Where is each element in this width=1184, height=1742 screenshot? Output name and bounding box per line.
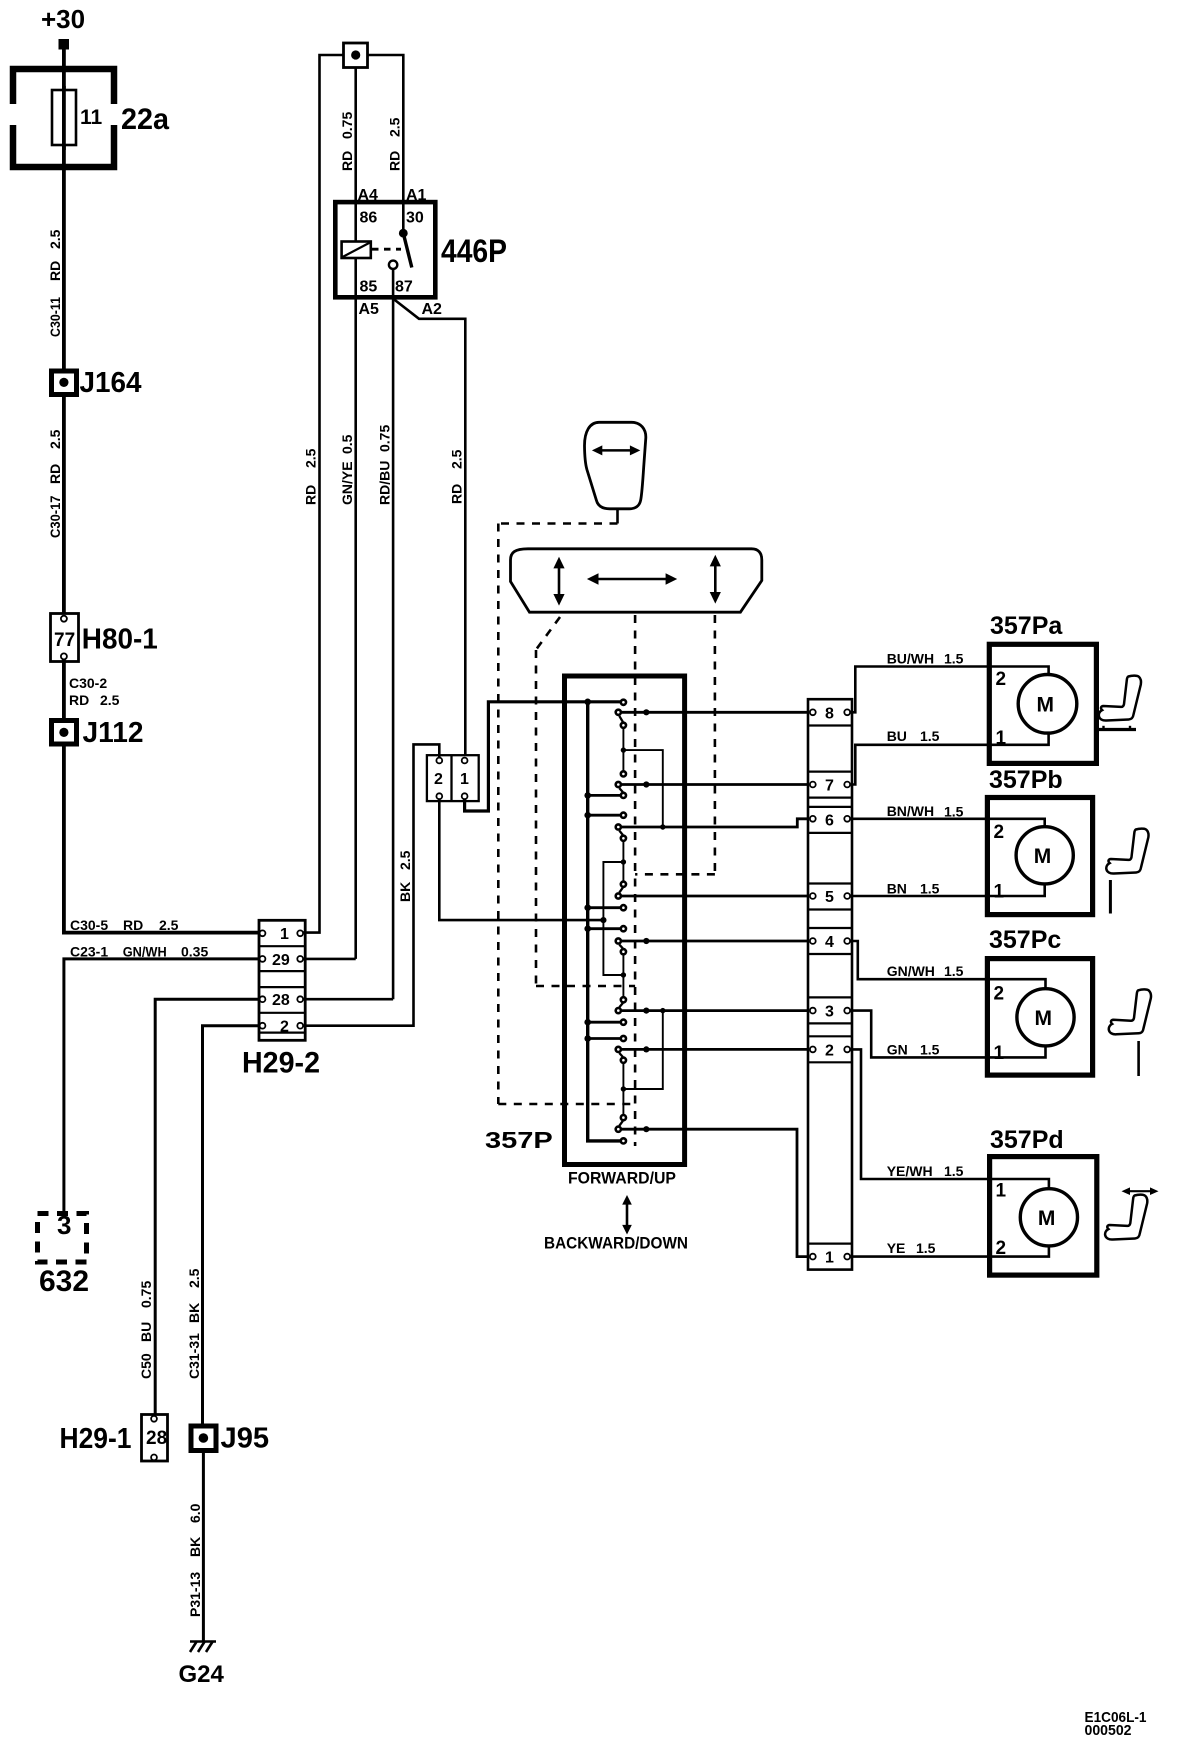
svg-text:RD: RD (47, 464, 63, 484)
wire cell8 to 357Pa pin2, BU/WH 1.5 (850, 651, 1049, 713)
wire u6 pivot to cell3 (618, 1008, 809, 1014)
switch u1 (616, 700, 626, 728)
svg-text:0.5: 0.5 (339, 434, 355, 454)
wire J112 down to H29-2 pin1 row (64, 744, 259, 933)
svg-text:RD/BU: RD/BU (377, 461, 393, 505)
svg-text:+30: +30 (41, 4, 85, 34)
junction box (harness splice) (344, 43, 368, 68)
dashed link headrest to switch (left leg) (497, 524, 635, 1105)
bus stubs to contacts (588, 795, 621, 1038)
svg-text:J112: J112 (83, 717, 144, 749)
svg-text:1.5: 1.5 (916, 1240, 936, 1256)
H29-2 pin 28 (260, 992, 304, 1009)
svg-text:J95: J95 (221, 1423, 270, 1455)
wire u5 pivot to cell4 (618, 938, 809, 944)
svg-text:2: 2 (825, 1043, 834, 1060)
svg-text:0.75: 0.75 (138, 1281, 154, 1308)
svg-text:1: 1 (825, 1250, 834, 1267)
H29-2 pin 2 (260, 1019, 304, 1036)
wire u1 pivot to cell8 (618, 709, 809, 715)
svg-text:2.5: 2.5 (397, 850, 413, 870)
switch u7 (616, 1036, 626, 1063)
wire J95 to ground, P31-13 BK 6.0 (187, 1450, 203, 1641)
svg-text:BK: BK (187, 1537, 203, 1557)
svg-text:J164: J164 (80, 367, 142, 399)
svg-text:M: M (1035, 1007, 1053, 1030)
svg-text:BN: BN (887, 881, 907, 897)
wire fuse to J164, RD 2.5 C30-11 (47, 145, 64, 371)
svg-text:28: 28 (272, 992, 290, 1009)
svg-text:C50: C50 (138, 1353, 154, 1379)
connector 2|1 pin 1 (460, 758, 469, 800)
relay contact pivot 30 (399, 229, 408, 238)
svg-text:77: 77 (54, 630, 75, 651)
svg-text:22a: 22a (121, 103, 169, 136)
svg-text:8: 8 (825, 706, 834, 723)
svg-text:G24: G24 (179, 1661, 225, 1688)
strip cell 3 (808, 997, 852, 1023)
wire u4 pivot to cell5 (618, 895, 809, 898)
svg-text:M: M (1037, 694, 1055, 717)
svg-text:1.5: 1.5 (920, 1041, 940, 1057)
dashed link cushion-centre to switch levers (634, 615, 637, 1146)
svg-text:2.5: 2.5 (100, 692, 120, 708)
relay 446P box (335, 202, 507, 297)
svg-text:BK: BK (397, 882, 413, 902)
svg-text:YE: YE (887, 1240, 906, 1256)
svg-text:1.5: 1.5 (944, 1163, 964, 1179)
svg-text:P31-13: P31-13 (187, 1572, 203, 1617)
cushion front up/down arrow (553, 557, 564, 606)
svg-text:5: 5 (825, 889, 834, 906)
cushion rear up/down arrow (710, 555, 721, 604)
wire splice to relay 86 coil, RD 0.75 (339, 67, 356, 242)
svg-text:2: 2 (996, 669, 1007, 690)
common bus (2|1 pin2 feed) (600, 859, 626, 977)
switch u2 (616, 771, 626, 798)
fuse 22a box (8, 69, 119, 167)
svg-text:1.5: 1.5 (944, 963, 964, 979)
wire cell7 to 357Pa pin1, BU 1.5 (850, 728, 1049, 785)
svg-text:2.5: 2.5 (387, 117, 403, 137)
switch u5 (616, 926, 626, 954)
svg-text:3: 3 (57, 1210, 71, 1240)
connector H29-1 pin 28 (60, 1415, 168, 1462)
seat cushion outline (511, 549, 762, 612)
svg-text:BU/WH: BU/WH (887, 651, 934, 667)
svg-text:A2: A2 (422, 301, 443, 318)
svg-text:0.75: 0.75 (339, 112, 355, 139)
motor 357Pc (987, 926, 1092, 1075)
svg-text:A5: A5 (359, 301, 380, 318)
contact link u1-u2 with branch to wire6 (621, 725, 666, 829)
svg-text:GN/WH: GN/WH (887, 963, 935, 979)
seat icon Pd (whole seat + fore/aft arrow) (1105, 1187, 1158, 1239)
headrest outline (584, 422, 645, 509)
svg-text:M: M (1038, 1207, 1056, 1230)
relay dashed actuator link (372, 248, 401, 251)
strip cell 8 (808, 706, 852, 726)
wire 2|1 pin2 bottom to switch common bus (439, 799, 603, 920)
svg-text:3: 3 (825, 1004, 834, 1021)
wire +30 to fuse (62, 49, 66, 90)
wire splice to relay 30, RD 2.5 (368, 55, 404, 233)
ground G24 (179, 1641, 225, 1688)
connector J95 (191, 1423, 269, 1455)
svg-text:0.75: 0.75 (377, 425, 393, 452)
strip cell 6 (808, 807, 852, 833)
wire cell6 to 357Pb pin2, BN/WH 1.5 (850, 803, 1045, 827)
switch feed bus (left vertical) (584, 699, 620, 1141)
wire 2|1 pin2 top to H29-2 pin2, BK 2.5 (303, 744, 439, 1025)
svg-text:1.5: 1.5 (920, 881, 940, 897)
svg-text:RD: RD (449, 484, 465, 504)
svg-text:C30-2: C30-2 (69, 675, 107, 691)
svg-text:2.5: 2.5 (449, 449, 465, 469)
svg-text:28: 28 (146, 1428, 167, 1449)
svg-text:86: 86 (360, 210, 378, 227)
wire u2 pivot to cell7 (618, 781, 809, 787)
wire J164 to H80-1, RD 2.5 C30-17 (47, 394, 64, 615)
svg-text:1: 1 (994, 881, 1005, 902)
svg-text:87: 87 (395, 279, 413, 296)
svg-text:357Pb: 357Pb (989, 766, 1063, 794)
svg-text:446P: 446P (441, 233, 507, 269)
strip cell 4 (808, 928, 852, 954)
svg-text:H29-1: H29-1 (60, 1423, 132, 1455)
svg-text:632: 632 (39, 1265, 89, 1298)
svg-text:2: 2 (994, 822, 1005, 843)
svg-text:2.5: 2.5 (47, 229, 63, 249)
wire relay 87 to H29-2 pin28, RD/BU 0.75 (303, 269, 393, 1000)
connector H29-2 (259, 920, 305, 1040)
switch u3 (616, 813, 626, 841)
svg-text:H29-2: H29-2 (242, 1047, 320, 1080)
svg-text:BU: BU (887, 728, 907, 744)
switch u4 (616, 882, 626, 911)
svg-text:11: 11 (80, 106, 103, 129)
label C23-1 GN/WH 0.35 (70, 944, 208, 960)
wire relay 85/A5 to H29-2 pin29, GN/YE 0.5 (303, 258, 356, 959)
direction arrow (622, 1195, 632, 1235)
svg-text:C30-11: C30-11 (47, 297, 63, 337)
dashed link cushion-rear to switch (635, 615, 715, 874)
wire u7 pivot to cell2 (618, 1046, 809, 1052)
svg-text:RD: RD (339, 151, 355, 171)
svg-text:C30-5: C30-5 (70, 917, 108, 933)
svg-text:1: 1 (460, 771, 469, 788)
motor 357Pb (987, 766, 1092, 915)
wire cell2 to 357Pd pin1, YE/WH 1.5 (850, 1049, 1049, 1188)
svg-text:357Pc: 357Pc (989, 926, 1061, 954)
svg-text:6: 6 (825, 813, 834, 830)
svg-text:2.5: 2.5 (186, 1268, 202, 1288)
switch u6 (616, 997, 626, 1025)
dashed link cushion-front to switch (536, 617, 635, 986)
svg-text:29: 29 (272, 952, 290, 969)
svg-text:FORWARD/UP: FORWARD/UP (568, 1170, 676, 1188)
wire H29-2 pin29 to 632, GN/WH 0.35 (64, 959, 259, 1213)
wire splice to H29-2 pin1 (RD 2.5 left bypass) (303, 55, 344, 933)
headrest stem wire (616, 509, 619, 524)
motor 357Pa (989, 612, 1096, 763)
wire cell5 to 357Pb pin1, BN 1.5 (850, 881, 1045, 897)
strip cell 7 (808, 772, 852, 798)
switch u8 (616, 1115, 626, 1144)
wire u8 pivot to cell1 (618, 1126, 809, 1257)
svg-text:1: 1 (994, 1043, 1005, 1064)
wire H29-2 pin28 to H29-1, C50 BU 0.75 (138, 999, 259, 1416)
svg-text:A1: A1 (406, 187, 427, 204)
wire cell4 to 357Pc pin2, GN/WH 1.5 (850, 941, 1046, 989)
svg-text:RD: RD (69, 692, 89, 708)
svg-text:A4: A4 (358, 187, 379, 204)
svg-text:1.5: 1.5 (920, 728, 940, 744)
seat icon Pc (backrest + rear height line) (1109, 989, 1151, 1076)
svg-text:4: 4 (825, 934, 834, 951)
component 632 (dashed box, pin 3) (38, 1210, 90, 1298)
svg-text:BK: BK (186, 1303, 202, 1323)
connector H80-1 pin 77 (51, 614, 158, 662)
svg-text:1.5: 1.5 (944, 804, 964, 820)
relay contact 87 (389, 261, 397, 269)
motor 357Pd (990, 1126, 1097, 1275)
svg-text:2: 2 (996, 1238, 1007, 1259)
wire H29-2 pin2 to J95, C31-31 BK 2.5 (186, 1026, 259, 1426)
connector J164 (52, 367, 142, 399)
seat icon Pb (backrest + front height line) (1106, 829, 1148, 914)
svg-text:85: 85 (360, 279, 378, 296)
connector J112 (52, 717, 144, 749)
svg-text:C30-17: C30-17 (47, 495, 63, 538)
wire cell3 to 357Pc pin1, GN 1.5 (850, 1011, 1046, 1058)
wire label C30-2 RD 2.5 (64, 659, 120, 721)
connector 2|1 pin 2 (434, 758, 443, 800)
svg-text:1: 1 (996, 728, 1007, 749)
svg-text:30: 30 (406, 210, 424, 227)
contact link u7-u8 with branch from wire3 (621, 1008, 666, 1118)
relay coil (342, 242, 371, 259)
relay contact lever (403, 233, 412, 267)
headrest fore/aft arrow (592, 445, 640, 455)
svg-text:000502: 000502 (1085, 1722, 1132, 1739)
H29-2 pin 1 (260, 926, 304, 943)
wire cell1 to 357Pd pin2, YE 1.5 (850, 1240, 1049, 1257)
svg-text:1: 1 (996, 1181, 1007, 1202)
switch unit 357P box (565, 676, 685, 1165)
strip cell 2 (808, 1036, 852, 1062)
svg-text:1.5: 1.5 (944, 651, 964, 667)
svg-text:BU: BU (138, 1322, 154, 1342)
svg-text:H80-1: H80-1 (82, 624, 158, 656)
svg-text:6.0: 6.0 (187, 1503, 203, 1523)
svg-text:RD: RD (47, 261, 63, 281)
seat harness connector 2|1 (427, 755, 479, 801)
wire 2|1 pin1 bottom to switch feed (465, 702, 621, 811)
svg-text:GN/WH: GN/WH (123, 944, 167, 960)
svg-text:BACKWARD/DOWN: BACKWARD/DOWN (544, 1235, 688, 1253)
wire relay 87/A2 branch to seat connector pin1, RD 2.5 (394, 300, 465, 758)
label C30-5 RD 2.5 (70, 917, 179, 933)
svg-text:YE/WH: YE/WH (887, 1163, 933, 1179)
H29-2 pin 29 (260, 952, 304, 969)
cushion fore/aft arrow (587, 573, 677, 585)
svg-text:BN/WH: BN/WH (887, 803, 934, 819)
svg-text:2: 2 (434, 771, 443, 788)
svg-text:1: 1 (280, 926, 289, 943)
svg-text:RD: RD (303, 485, 319, 505)
seat connector strip outline (808, 699, 852, 1269)
svg-text:357P: 357P (485, 1127, 553, 1153)
svg-text:2: 2 (280, 1019, 289, 1036)
svg-text:C23-1: C23-1 (70, 944, 108, 960)
svg-text:RD: RD (387, 151, 403, 171)
contact link u5-u6 (622, 952, 624, 1000)
contact link u3-u4 (622, 838, 624, 884)
strip cell 5 (808, 884, 852, 910)
fuse element 11 (52, 86, 103, 150)
svg-text:2.5: 2.5 (303, 448, 319, 468)
svg-text:357Pa: 357Pa (990, 612, 1063, 640)
wire u3 pivot to cell6 (618, 819, 809, 827)
svg-text:0.35: 0.35 (181, 944, 208, 960)
node +30 supply (41, 4, 85, 50)
seat icon Pa (whole seat + rail) (1098, 676, 1141, 730)
svg-text:357Pd: 357Pd (990, 1126, 1064, 1154)
svg-text:C31-31: C31-31 (186, 1333, 202, 1379)
svg-text:2: 2 (994, 984, 1005, 1005)
strip cell 1 (808, 1244, 852, 1267)
svg-text:7: 7 (825, 778, 834, 795)
svg-text:GN: GN (887, 1041, 908, 1057)
svg-text:2.5: 2.5 (159, 917, 179, 933)
svg-text:2.5: 2.5 (47, 429, 63, 449)
svg-text:RD: RD (123, 917, 143, 933)
svg-text:GN/YE: GN/YE (339, 461, 355, 505)
svg-text:M: M (1034, 845, 1052, 868)
